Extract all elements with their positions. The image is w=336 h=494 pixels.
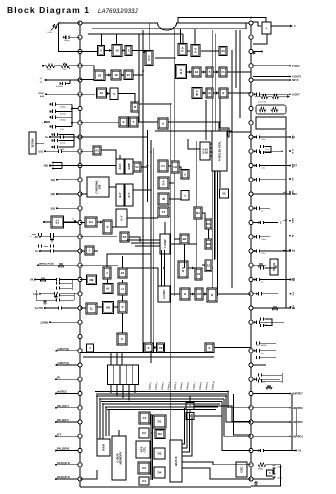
svg-text:LA7693J/933J: LA7693J/933J [98, 8, 138, 15]
svg-text:4.7u: 4.7u [33, 293, 38, 296]
block IF amp 2 [112, 45, 122, 57]
wire row3 b [107, 93, 111, 95]
block chroma SW [87, 177, 109, 197]
wire top-right fb [253, 34, 267, 44]
wire bot v x109 [108, 410, 110, 437]
svg-text:S: S [107, 225, 109, 229]
svg-text:R-Y: R-Y [127, 192, 131, 197]
wire apc pair [188, 50, 191, 52]
wire comb out3 [122, 385, 124, 399]
block audio amp [219, 88, 228, 98]
svg-text:R-Y1: R-Y1 [293, 148, 295, 154]
wire top-right out [271, 25, 291, 27]
pin L5 [78, 78, 82, 82]
wire acc top [119, 155, 121, 159]
pin L2 [78, 35, 82, 39]
wire xtal t4 [210, 155, 212, 157]
wire/parts left pin 32 [56, 464, 78, 466]
pin L23 [78, 334, 82, 338]
wire dem out [133, 189, 151, 191]
wire/parts left pin 15 [63, 222, 78, 224]
block delay 1 [205, 219, 212, 229]
block NTSC xtal [212, 131, 227, 171]
svg-text:K2: K2 [123, 235, 127, 239]
wire sif chain [187, 71, 193, 73]
svg-text:(30p): (30p) [278, 478, 283, 480]
pin R5 [249, 78, 253, 82]
svg-text:D2: D2 [207, 242, 211, 246]
wire/parts right pin R16 [253, 236, 270, 238]
pin L8 [78, 121, 82, 125]
wire bus V13 [235, 30, 237, 88]
wire/parts left pin 14 [57, 207, 78, 209]
wire vramp row [80, 352, 208, 354]
pin R9 [249, 135, 253, 139]
wire/parts right pin R6 [253, 93, 290, 95]
wire/parts right pin R17 [253, 250, 290, 252]
svg-text:C3: C3 [142, 466, 146, 470]
terminal NTSC pin6 [45, 93, 47, 95]
wire fm2 [213, 92, 219, 94]
wire bus V1 [138, 34, 140, 123]
wire row2 e [133, 74, 143, 76]
svg-text:18: 18 [195, 70, 199, 74]
pin R29 [249, 420, 253, 424]
svg-text:H.OSC: H.OSC [162, 289, 166, 299]
right bottom bus [291, 394, 293, 451]
block AFT out [219, 47, 227, 56]
wire yamp top [164, 222, 166, 234]
wire/parts left pin 19 [35, 279, 78, 281]
block AFT amp [93, 146, 101, 155]
wire hout right [217, 293, 251, 295]
svg-text:OSC: OSC [240, 465, 244, 472]
svg-text:0.1u: 0.1u [60, 137, 64, 139]
block hue [85, 217, 97, 227]
svg-text:X: X [121, 337, 123, 341]
pin R21 [249, 306, 253, 310]
block CPU bus [170, 440, 182, 482]
svg-text:A1: A1 [95, 149, 99, 153]
wire hout3 [203, 293, 207, 295]
right caps y373-387 [258, 373, 261, 376]
wire loop pins1-3 [59, 23, 81, 52]
block ACC 2 [125, 159, 133, 174]
wire kamp [129, 237, 140, 242]
IC U1 top edge with notch [80, 23, 251, 30]
wire/parts right pin R12 [253, 179, 286, 181]
wire bus V4b [153, 148, 155, 352]
svg-text:SCA(1)P-D: SCA(1)P-D [57, 476, 70, 479]
wire count [188, 267, 195, 269]
pin R12 [249, 178, 253, 182]
wire/parts left pin 29 [56, 421, 78, 423]
wire/parts right pin R19 [253, 279, 290, 281]
pin L16 [78, 235, 82, 239]
block Hout 1 [180, 288, 190, 300]
pin L19 [78, 277, 82, 281]
wire fm1 [202, 92, 206, 94]
wire hosc top [161, 250, 163, 286]
pin R1 [249, 21, 253, 25]
capacitor cluster C-left4 [38, 244, 41, 247]
wire sync col2 [122, 280, 124, 283]
block dac 2 [155, 430, 165, 439]
block matrix G-Y [116, 209, 127, 227]
svg-text:21: 21 [197, 272, 201, 276]
svg-text:S: S [123, 120, 125, 124]
svg-text:1u: 1u [266, 322, 268, 324]
svg-text:(470u): (470u) [60, 107, 66, 109]
svg-text:UHF/PC7: UHF/PC7 [292, 393, 303, 396]
wire sif2 [201, 71, 206, 73]
svg-text:R-Y: R-Y [293, 163, 295, 167]
wire yamp out [170, 243, 197, 245]
block SECAM sw [186, 413, 194, 420]
block ctl 3 [138, 462, 150, 474]
wire/parts left pin 28 [56, 407, 78, 409]
wire del [208, 229, 210, 239]
block demod R-Y [125, 184, 133, 206]
wire row3 a [80, 93, 95, 95]
wire pal col [189, 396, 191, 403]
wire burst [202, 213, 205, 219]
svg-text:0.1u: 0.1u [261, 139, 265, 141]
block SECAM 2 [181, 191, 189, 201]
wire/parts right pin R30 [253, 435, 290, 437]
svg-text:4(1): 4(1) [51, 179, 56, 182]
wire bus V12 [239, 30, 241, 118]
svg-text:C2: C2 [142, 431, 146, 435]
wire cpu right [182, 462, 251, 465]
block AFC [158, 118, 168, 129]
capacitor cluster C-left2 (pins 9/10) [51, 133, 53, 135]
wire internal top rail 1 [92, 28, 246, 30]
block APC 2 [191, 45, 200, 57]
wire comb wide [83, 356, 214, 358]
arrow down r2 [253, 51, 256, 54]
block dac 1 [153, 415, 166, 428]
block count 1 [178, 261, 188, 278]
pin L10 [78, 149, 82, 153]
wire comb top3 [116, 353, 118, 366]
svg-text:21: 21 [127, 73, 131, 77]
pin R32 [249, 463, 253, 467]
svg-text:C-BUSMEMORY: C-BUSMEMORY [115, 451, 122, 464]
block ctl 1 [139, 412, 150, 424]
block RF AGC [131, 102, 139, 112]
wire bot h y391 [95, 391, 228, 393]
svg-text:V-O: V-O [293, 292, 295, 296]
svg-text:B-T: B-T [57, 433, 62, 436]
block top right [262, 22, 271, 34]
wire secam ch [179, 167, 181, 170]
block Hout 3 [207, 288, 217, 302]
wire/parts left pin 31 [56, 450, 78, 452]
right labels col [289, 136, 291, 138]
wire comb out2 [116, 385, 118, 396]
block VCO [133, 162, 141, 172]
wire yamp in3 [135, 245, 160, 247]
wire/parts left pin 17 [40, 250, 78, 252]
block sync 2 [118, 283, 127, 295]
block delay 2 [205, 239, 212, 249]
wire cpu right2 [182, 468, 251, 479]
wire cpu r4 [182, 414, 192, 456]
svg-text:SIF D: SIF D [292, 79, 299, 82]
pin L31 [78, 448, 82, 452]
svg-text:H1: H1 [89, 220, 93, 224]
svg-text:1u: 1u [261, 353, 263, 355]
block Xray [205, 343, 214, 353]
pin L4 [78, 64, 82, 68]
block count 3 [205, 260, 212, 272]
wire bot h y399 [99, 398, 224, 400]
capacitor C-xtal2 [273, 474, 276, 477]
wire/parts right pin R27 [253, 393, 290, 395]
pin R3 [249, 49, 253, 53]
svg-text:(100u): (100u) [60, 120, 66, 122]
wire/parts left pin 7 [72, 108, 78, 110]
terminals chroma-in [52, 162, 54, 164]
wire internal top rail 2 [88, 33, 183, 35]
block comb filter [108, 365, 139, 385]
block memory [112, 436, 126, 480]
wire killer line [80, 236, 117, 238]
svg-text:Y: Y [133, 120, 135, 124]
wire row1 top1 [101, 34, 103, 45]
svg-text:SYSCTL: SYSCTL [139, 446, 146, 452]
svg-text:C4: C4 [142, 479, 146, 483]
wire yamp in2 [131, 242, 160, 244]
block r-row1 [256, 117, 286, 129]
svg-text:X: X [208, 346, 210, 350]
wire sif3 [213, 71, 219, 73]
wire bot h y404 [103, 403, 220, 405]
wire comb out4 [128, 385, 130, 401]
svg-text:F1: F1 [221, 70, 225, 74]
right caps y345-360 [256, 341, 259, 344]
wire xray [214, 347, 251, 349]
svg-text:0.47u: 0.47u [60, 149, 65, 151]
right bus V-R1 [285, 130, 287, 308]
wire/parts left pin 18 [38, 264, 78, 266]
wire/parts right pin R24 [253, 350, 276, 352]
wire afc out [168, 122, 219, 128]
wire/parts right pin R21 [253, 307, 290, 309]
block dac 4 [154, 467, 165, 478]
svg-text:1u: 1u [261, 210, 263, 212]
block burst gate [194, 207, 202, 219]
wire/parts right pin R10 [253, 150, 282, 152]
svg-text:0.022u: 0.022u [60, 114, 66, 116]
block 4.43 osc [158, 160, 168, 172]
wire dac bus2 [152, 415, 154, 480]
svg-text:AL: AL [106, 287, 110, 291]
wire idsw2 [94, 250, 98, 252]
svg-text:1u: 1u [261, 282, 263, 284]
wire sec right [194, 415, 222, 417]
wire sync in2 [80, 264, 118, 266]
block Y amp [160, 234, 170, 254]
capacitor extra R17 [260, 266, 263, 269]
block IF det [145, 51, 153, 66]
pin R15 [249, 220, 253, 224]
svg-text:V: V [148, 346, 150, 350]
wire/parts right pin R33 [253, 478, 262, 480]
wire/parts left pin 11 [50, 165, 78, 167]
block SECAM 1 [181, 170, 189, 180]
resistor pair R-right [261, 95, 268, 99]
pin R8 [249, 121, 253, 125]
wire demod [80, 193, 87, 195]
wire bus V15 [180, 29, 182, 44]
wire bot v x103 [102, 404, 104, 439]
block de-emp [206, 88, 213, 98]
wire pal col2 [189, 410, 191, 413]
svg-text:4MHz: 4MHz [258, 469, 263, 471]
wire/parts left pin 24 [57, 350, 79, 352]
wire sync col [122, 256, 124, 268]
wire dac bus [150, 415, 152, 480]
block count 2 [195, 268, 202, 280]
svg-text:T1: T1 [162, 210, 166, 214]
block VIF 3 [111, 70, 121, 80]
pin R22 [249, 320, 253, 324]
wire/parts right pin R26 [253, 378, 280, 380]
wire/parts right pin R15 [253, 222, 278, 224]
wire blank down [184, 244, 186, 268]
wire/parts right pin R29 [253, 421, 290, 423]
svg-text:1u: 1u [35, 250, 38, 253]
pin R30 [249, 434, 253, 438]
wire hout2 [190, 293, 195, 295]
svg-text:4.7u: 4.7u [60, 129, 64, 131]
svg-text:Y AMP: Y AMP [163, 239, 167, 248]
wire bot v x222 [222, 402, 251, 451]
right bus stubs [283, 136, 286, 138]
svg-text:(4): (4) [40, 82, 43, 84]
IC U1 bottom edge [80, 486, 251, 488]
svg-text:B-Y: B-Y [293, 135, 295, 139]
pin L29 [78, 420, 82, 424]
wire top outer loop [178, 18, 266, 23]
svg-text:A OUT2: A OUT2 [292, 76, 302, 79]
block ctl 4 [139, 477, 149, 485]
wire comb top [121, 353, 123, 366]
vertical label box (SECAM) [29, 132, 36, 154]
wire agc g [80, 279, 87, 281]
svg-text:V-S: V-S [293, 277, 295, 281]
pin L21 [78, 306, 82, 310]
trimmer CT1 [53, 24, 58, 29]
pin R16 [249, 235, 253, 239]
wire rfagc [139, 103, 171, 105]
wire hout row [170, 293, 180, 295]
svg-text:V1: V1 [135, 165, 139, 169]
wire sync mid [138, 121, 158, 123]
wire/parts left pin 26 [56, 378, 78, 380]
wire cpu r1 [182, 408, 185, 444]
pin L14 [78, 206, 82, 210]
wire sync col4 [122, 313, 124, 333]
pin R27 [249, 391, 253, 395]
block M plan [270, 259, 278, 275]
wire comb top2 [110, 353, 112, 366]
block tint [158, 207, 169, 217]
svg-text:4.43/3.58 XTAL: 4.43/3.58 XTAL [218, 141, 222, 161]
wire row1 c [132, 51, 146, 53]
wire mid h1 [127, 268, 158, 286]
wire bus V11 [231, 50, 233, 288]
svg-text:PAL(1)P-4: PAL(1)P-4 [57, 405, 69, 408]
wire xtal t2 [210, 147, 212, 149]
svg-text:SEC: SEC [293, 189, 295, 194]
svg-text:In/OUT(2): In/OUT(2) [58, 348, 69, 351]
wire bot h y401 [101, 401, 222, 403]
capacitor C-xtal1 [273, 465, 276, 468]
block Vramp [144, 343, 153, 353]
wire/parts left pin 21 [45, 307, 78, 309]
svg-text:0.1u: 0.1u [261, 168, 265, 170]
block sys ctl [136, 441, 150, 458]
wire bot v x224 [224, 399, 251, 436]
svg-text:SB: SB [106, 306, 110, 310]
svg-text:C1: C1 [143, 416, 147, 420]
pin L1 [78, 21, 82, 25]
block agc gate [87, 275, 97, 285]
block Hosc [158, 286, 170, 302]
wire/parts left pin 25 [57, 364, 79, 366]
wire/parts left pin 30 [56, 435, 78, 437]
svg-text:A5: A5 [221, 49, 225, 53]
wire vout link [153, 347, 157, 349]
wire phase r [97, 306, 103, 308]
svg-text:2.2u: 2.2u [261, 253, 265, 255]
pin R7 [249, 106, 253, 110]
wire bot v x233 [234, 394, 252, 435]
IC U1 left edge (pin rail) [79, 23, 81, 487]
block sync sep 1 [119, 117, 128, 127]
svg-text:S1: S1 [121, 271, 125, 275]
pin R19 [249, 277, 253, 281]
svg-text:NE: NE [89, 278, 93, 282]
wire sif4 [227, 71, 251, 73]
wire count2 [202, 264, 205, 266]
svg-text:H: H [121, 287, 123, 291]
pin R10 [249, 149, 253, 153]
wire cpu r3 [182, 412, 190, 452]
pin L28 [78, 406, 82, 410]
wire idsw [80, 250, 85, 252]
block SIF amp [192, 67, 201, 77]
resistor network RN1 [256, 105, 286, 114]
wire/parts right pin R25 [253, 364, 266, 366]
wire aft in [80, 136, 148, 138]
svg-text:2.2k 2.2k: 2.2k 2.2k [258, 102, 266, 104]
pin R13 [249, 192, 253, 196]
wire sync0 up [107, 254, 151, 267]
pin R17 [249, 249, 253, 253]
svg-text:DP LIGHD: DP LIGHD [256, 345, 267, 347]
wire bus V7 [196, 141, 198, 268]
svg-text:H: H [184, 292, 186, 296]
svg-text:1000p: 1000p [64, 40, 69, 42]
block xtal sel [200, 142, 210, 160]
svg-text:V OUT: V OUT [292, 65, 300, 68]
block ACC 1 [116, 159, 124, 174]
svg-text:55: 55 [222, 192, 226, 196]
